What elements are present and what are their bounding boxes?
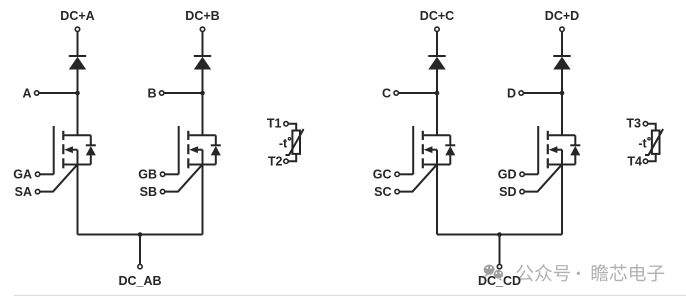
terminal A bbox=[35, 91, 39, 95]
svg-text:-t: -t bbox=[279, 137, 288, 151]
svg-text:-t: -t bbox=[638, 137, 647, 151]
svg-text:GC: GC bbox=[373, 168, 392, 182]
wire D to drain node bbox=[523, 92, 560, 94]
thermistor RT stroke bbox=[645, 129, 663, 155]
svg-text:GA: GA bbox=[13, 168, 32, 182]
diode DD (blocking, cathode up) bbox=[553, 56, 570, 93]
wire to DC_AB terminal bbox=[139, 235, 141, 265]
wire bottom rail DC_CD bbox=[437, 234, 562, 236]
terminal GC bbox=[395, 172, 399, 176]
baseline rule (faint) bbox=[14, 294, 686, 296]
svg-text:T2: T2 bbox=[268, 154, 283, 168]
diode DA (blocking, cathode up) bbox=[69, 56, 86, 93]
wire T4 to thermistor bbox=[648, 154, 656, 161]
wire DC+D to diode bbox=[561, 32, 563, 57]
node DC_AB junction bbox=[138, 232, 143, 237]
node A junction bbox=[75, 91, 80, 96]
terminal DC+C bbox=[435, 27, 439, 31]
terminal T2 bbox=[284, 159, 288, 163]
wire T2 to thermistor bbox=[288, 154, 296, 161]
wire diode to drain bbox=[436, 93, 438, 135]
node C junction bbox=[435, 91, 440, 96]
terminal DC_AB bbox=[138, 264, 142, 268]
wire GB to gate bbox=[165, 173, 179, 175]
terminal SD bbox=[520, 189, 524, 193]
wire diode to drain bbox=[202, 93, 204, 135]
wire bottom rail DC_AB bbox=[78, 234, 203, 236]
wire DC+A to diode bbox=[77, 32, 79, 57]
wire source down bbox=[561, 165, 563, 235]
wire SD kelvin-source bbox=[524, 165, 561, 192]
transistor QD (N-MOSFET with body diode) bbox=[538, 126, 580, 174]
wire source down bbox=[202, 165, 204, 235]
svg-text:SD: SD bbox=[499, 185, 516, 199]
svg-text:DC+D: DC+D bbox=[545, 9, 579, 23]
watermark wechat icon bbox=[484, 265, 504, 281]
terminal DC+D bbox=[560, 27, 564, 31]
svg-text:DC+B: DC+B bbox=[185, 9, 219, 23]
terminal SB bbox=[160, 189, 164, 193]
svg-text:DC_CD: DC_CD bbox=[478, 274, 521, 288]
terminal T4 bbox=[643, 159, 647, 163]
terminal GD bbox=[520, 172, 524, 176]
wire GC to gate bbox=[399, 173, 413, 175]
svg-text:B: B bbox=[147, 86, 156, 100]
terminal C bbox=[394, 91, 398, 95]
diode DC (blocking, cathode up) bbox=[428, 56, 445, 93]
watermark text 公众号 · 瞻芯电子 bbox=[516, 264, 664, 281]
svg-text:T4: T4 bbox=[627, 154, 642, 168]
node DC_CD junction bbox=[497, 232, 502, 237]
svg-text:GD: GD bbox=[498, 168, 517, 182]
terminal GB bbox=[160, 172, 164, 176]
terminal SA bbox=[35, 189, 39, 193]
terminal T3 bbox=[643, 122, 647, 126]
svg-text:DC+A: DC+A bbox=[60, 9, 94, 23]
terminal D bbox=[519, 91, 523, 95]
wire GA to gate bbox=[40, 173, 54, 175]
thermistor RT stroke bbox=[286, 129, 304, 155]
wire T1 to thermistor bbox=[288, 124, 296, 131]
svg-text:DC+C: DC+C bbox=[420, 9, 454, 23]
wire SA kelvin-source bbox=[40, 165, 77, 192]
diode DB (blocking, cathode up) bbox=[194, 56, 211, 93]
svg-text:T1: T1 bbox=[267, 117, 282, 131]
terminal SC bbox=[395, 189, 399, 193]
terminal DC+B bbox=[200, 27, 204, 31]
svg-text:D: D bbox=[507, 86, 516, 100]
svg-text:C: C bbox=[382, 86, 391, 100]
svg-text:A: A bbox=[22, 86, 31, 100]
wire C to drain node bbox=[398, 92, 435, 94]
wire source down bbox=[436, 165, 438, 235]
transistor QC (N-MOSFET with body diode) bbox=[413, 126, 455, 174]
terminal B bbox=[160, 91, 164, 95]
wire SC kelvin-source bbox=[399, 165, 436, 192]
wire GD to gate bbox=[524, 173, 538, 175]
wire source down bbox=[77, 165, 79, 235]
wire diode to drain bbox=[561, 93, 563, 135]
node D junction bbox=[560, 91, 565, 96]
svg-text:T3: T3 bbox=[626, 117, 641, 131]
terminal T1 bbox=[284, 122, 288, 126]
terminal DC+A bbox=[75, 27, 79, 31]
terminal DC_CD bbox=[497, 264, 501, 268]
svg-text:SA: SA bbox=[15, 185, 32, 199]
wire SB kelvin-source bbox=[165, 165, 202, 192]
node B junction bbox=[200, 91, 205, 96]
thermistor RT body bbox=[292, 131, 300, 154]
wire to DC_CD terminal bbox=[499, 235, 501, 265]
svg-text:DC_AB: DC_AB bbox=[118, 274, 161, 288]
thermistor RT body bbox=[652, 131, 660, 154]
transistor QA (N-MOSFET with body diode) bbox=[54, 126, 96, 174]
svg-text:SB: SB bbox=[140, 185, 157, 199]
wire A to drain node bbox=[39, 92, 76, 94]
wire DC+C to diode bbox=[436, 32, 438, 57]
svg-text:GB: GB bbox=[138, 168, 157, 182]
svg-text:SC: SC bbox=[374, 185, 391, 199]
wire B to drain node bbox=[164, 92, 201, 94]
wire T3 to thermistor bbox=[648, 124, 656, 131]
wire diode to drain bbox=[77, 93, 79, 135]
wire DC+B to diode bbox=[202, 32, 204, 57]
terminal GA bbox=[35, 172, 39, 176]
transistor QB (N-MOSFET with body diode) bbox=[179, 126, 221, 174]
